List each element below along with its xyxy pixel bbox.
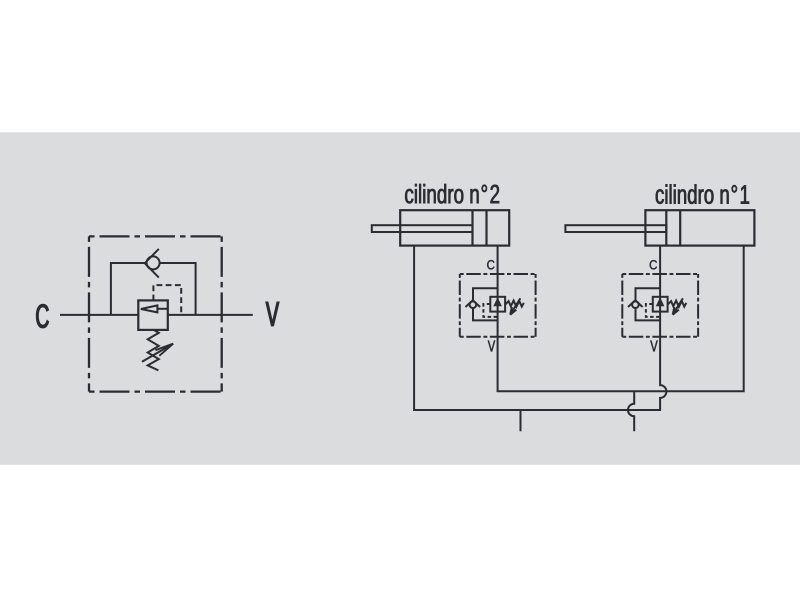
valve 1 bypass loop [636,288,661,320]
cylinder C1 piston [666,210,680,246]
wire C to valve [60,314,138,316]
valve 1 spring [668,301,687,307]
valve 2 body [490,297,505,312]
cylinder C1 rod [565,225,666,232]
wire cyl2 rod port / lower rail / hop up to valve1 V line / cyl1 rod port [414,246,666,411]
relief valve flow arrow [157,308,167,310]
valve 2 pilot line (dashed) [483,304,497,317]
bypass wire right leg [159,263,195,315]
wire valve to V [168,314,253,316]
cylinder C2 piston [473,210,487,246]
valve 1 port label C [650,260,657,269]
supply stub wire [520,410,522,431]
port label V [266,302,279,326]
check valve seat [145,249,159,278]
valve 2 adjustment arrow [510,298,520,314]
valve 1 check seat [628,300,643,307]
gray band background [0,132,800,465]
valve 2 check seat [466,300,481,307]
bypass wire left leg [111,263,147,315]
check valve ball [147,256,160,269]
cylinder C1 barrel [645,210,754,245]
valve 1 flow arrow [657,300,662,306]
boundary box (dash-dot) [89,236,222,391]
valve 2 bypass loop [473,288,498,320]
valve 2 boundary box (dash-dot) [460,274,536,337]
valve 1 port label V [650,341,657,352]
valve 1 adjustment arrow [673,298,683,314]
cylinder C2 barrel [400,210,509,245]
valve 1 pilot line (dashed) [646,304,660,317]
valve 2 port label C [487,260,494,269]
valve 2 spring [505,301,524,307]
port label C [36,304,48,328]
valve 2 port label V [488,341,495,352]
spring [148,330,159,371]
valve 1 check ball [632,301,639,308]
pilot line (dashed) [153,285,181,315]
valve 1 body [653,297,668,312]
valve 2 check ball [470,301,477,308]
valve 1 boundary box (dash-dot) [622,274,698,337]
wire cyl2 cap port / valve2 line / upper rail / cyl1 cap port [498,246,744,392]
adjustment arrow [142,344,173,362]
label cilindro n.1 [656,184,749,203]
cylinder C2 rod [372,225,473,232]
label cilindro n.2 [405,184,499,203]
branch wire from upper rail with hop over lower rail [628,391,634,431]
relief valve body U1 [138,300,168,330]
valve 2 flow arrow [495,300,500,306]
